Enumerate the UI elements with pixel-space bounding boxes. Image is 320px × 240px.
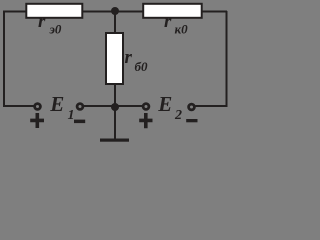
terminal circle E2 - — [189, 104, 195, 110]
resistor R_к0 — [143, 4, 202, 18]
node: bottom junction dot — [111, 103, 119, 111]
wire: E2 to right vertical — [196, 105, 228, 107]
svg-text:r: r — [164, 11, 172, 32]
minus sign E2 — [186, 119, 197, 122]
wire: right vertical down — [226, 11, 228, 107]
svg-text:2: 2 — [174, 108, 182, 123]
wire: top-left horizontal to resistor r_e0 — [3, 11, 26, 13]
terminal circle E2 + — [143, 104, 149, 110]
svg-text:E: E — [157, 92, 172, 116]
svg-text:э0: э0 — [49, 22, 62, 37]
plus sign E2 — [139, 113, 152, 128]
wire: bottom junction to E2 — [115, 105, 143, 107]
resistor R_э0 — [26, 4, 82, 18]
wire: top junction down to resistor r_б0 — [114, 11, 116, 33]
resistor R_б0 (vertical) — [106, 33, 123, 84]
node: top junction dot — [111, 7, 119, 15]
terminal circle E1 - — [77, 104, 83, 110]
svg-text:к0: к0 — [175, 22, 189, 37]
svg-text:б0: б0 — [135, 59, 148, 74]
wire: left vertical from top-left corner down to E1 branch — [3, 11, 5, 106]
minus sign E1 — [74, 120, 85, 124]
svg-text:E: E — [49, 92, 64, 116]
wire: top junction to resistor r_к0 — [115, 11, 143, 13]
wire: E1 to bottom junction — [84, 105, 115, 107]
svg-text:1: 1 — [68, 108, 75, 123]
plus sign E1 — [30, 113, 44, 128]
svg-text:r: r — [38, 11, 46, 32]
wire: resistor r_б0 down to bottom junction — [114, 84, 116, 107]
wire: resistor r_э0 to top junction — [83, 11, 115, 13]
ground — [100, 139, 129, 142]
wire: resistor r_к0 to top-right corner — [202, 11, 227, 13]
wire: bottom-left horizontal to E1 — [3, 105, 34, 107]
terminal circle E1 + — [35, 104, 41, 110]
wire: bottom junction down to ground — [114, 107, 116, 140]
svg-text:r: r — [125, 47, 133, 68]
